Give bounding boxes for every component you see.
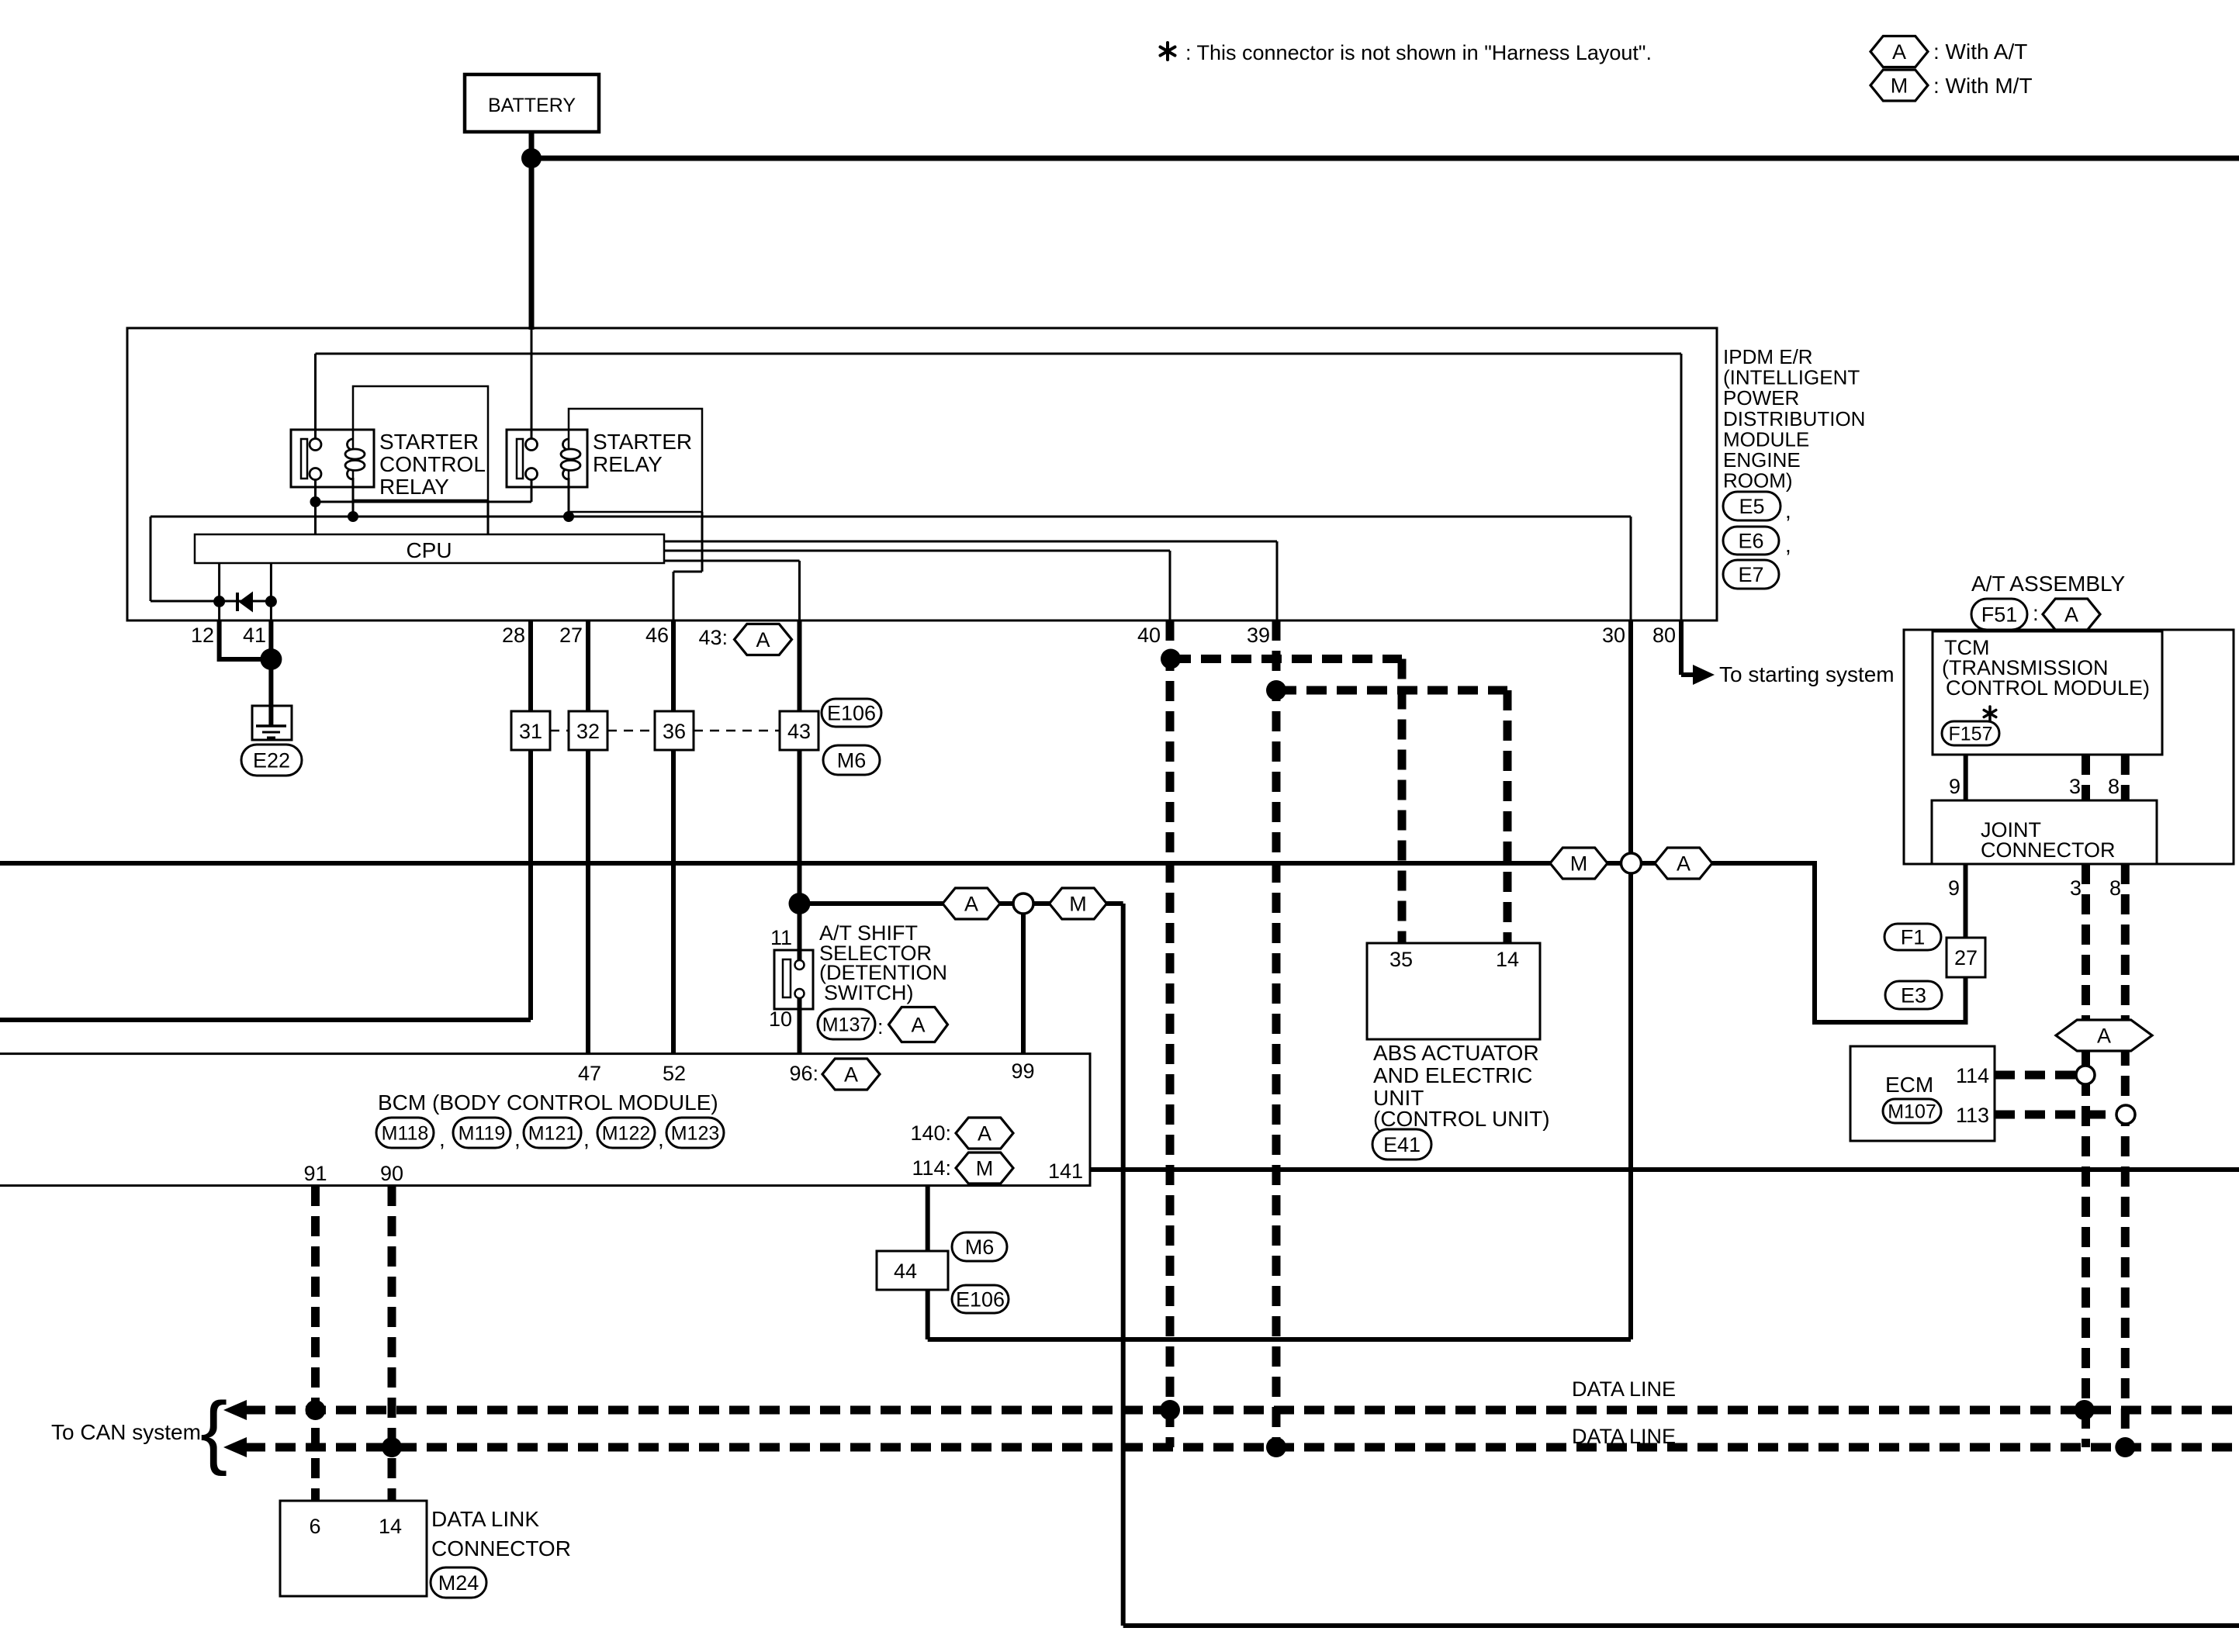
svg-text:IPDM E/R: IPDM E/R <box>1723 345 1813 368</box>
svg-text:28: 28 <box>502 624 525 647</box>
svg-text:DATA LINK: DATA LINK <box>431 1507 539 1531</box>
svg-text:8: 8 <box>2109 876 2121 900</box>
svg-text:E5: E5 <box>1739 495 1764 518</box>
svg-text:43:: 43: <box>698 626 728 649</box>
svg-text:ABS ACTUATOR: ABS ACTUATOR <box>1373 1041 1539 1065</box>
svg-text:A: A <box>2097 1024 2111 1047</box>
svg-text:A: A <box>978 1121 991 1145</box>
svg-text:E41: E41 <box>1383 1133 1421 1156</box>
svg-text:114:: 114: <box>912 1156 951 1180</box>
svg-text:M6: M6 <box>965 1236 995 1259</box>
svg-text:8: 8 <box>2108 775 2120 798</box>
svg-text:{: { <box>200 1385 227 1477</box>
svg-text:A/T ASSEMBLY: A/T ASSEMBLY <box>1971 572 2125 596</box>
svg-text:41: 41 <box>243 624 266 647</box>
svg-text:ECM: ECM <box>1885 1073 1933 1097</box>
svg-text:27: 27 <box>1954 946 1978 969</box>
svg-text:ROOM): ROOM) <box>1723 469 1793 492</box>
svg-text:M118: M118 <box>382 1122 429 1144</box>
svg-text:DATA LINE: DATA LINE <box>1572 1425 1676 1448</box>
svg-text:M6: M6 <box>837 748 867 772</box>
svg-text:E106: E106 <box>956 1287 1005 1311</box>
svg-text:43: 43 <box>787 720 811 743</box>
svg-text:M107: M107 <box>1888 1101 1936 1122</box>
svg-text:31: 31 <box>519 720 542 743</box>
svg-text:141: 141 <box>1048 1160 1083 1183</box>
svg-text:: This connector is not shown: : This connector is not shown in "Harnes… <box>1185 41 1652 64</box>
svg-text:M: M <box>1570 852 1588 875</box>
svg-text:STARTER: STARTER <box>593 430 692 454</box>
svg-text:27: 27 <box>559 624 583 647</box>
svg-text:32: 32 <box>576 720 600 743</box>
svg-text:9: 9 <box>1949 775 1960 798</box>
svg-text:RELAY: RELAY <box>593 452 663 476</box>
svg-text:6: 6 <box>309 1515 320 1538</box>
svg-text:E22: E22 <box>253 748 290 772</box>
svg-text:M137: M137 <box>822 1014 871 1035</box>
svg-text:M122: M122 <box>602 1122 651 1144</box>
svg-text:BATTERY: BATTERY <box>488 95 576 116</box>
svg-text::: : <box>877 1015 884 1039</box>
svg-text:To CAN system: To CAN system <box>51 1420 201 1444</box>
svg-text:44: 44 <box>894 1260 917 1283</box>
svg-text:30: 30 <box>1602 624 1625 647</box>
svg-text:RELAY: RELAY <box>379 475 449 499</box>
svg-text:10: 10 <box>769 1007 792 1031</box>
svg-text:DISTRIBUTION: DISTRIBUTION <box>1723 407 1865 430</box>
svg-text:CONTROL MODULE): CONTROL MODULE) <box>1946 676 2150 700</box>
svg-text:,: , <box>583 1127 590 1151</box>
svg-text:A: A <box>1892 40 1906 64</box>
svg-text:47: 47 <box>578 1062 601 1085</box>
svg-text:ENGINE: ENGINE <box>1723 448 1801 472</box>
svg-text:CONNECTOR: CONNECTOR <box>1981 838 2116 862</box>
svg-text:A: A <box>964 892 978 915</box>
svg-text:(CONTROL UNIT): (CONTROL UNIT) <box>1373 1107 1550 1131</box>
svg-text:M121: M121 <box>528 1122 577 1144</box>
svg-text:MODULE: MODULE <box>1723 427 1809 451</box>
svg-text:39: 39 <box>1247 624 1270 647</box>
svg-text:M24: M24 <box>438 1571 479 1595</box>
svg-text:36: 36 <box>663 720 686 743</box>
svg-text:E106: E106 <box>827 701 876 724</box>
svg-text:113: 113 <box>1956 1104 1989 1127</box>
svg-text:M119: M119 <box>459 1122 506 1144</box>
svg-text:52: 52 <box>663 1062 686 1085</box>
svg-text:F1: F1 <box>1901 925 1926 949</box>
svg-text:(INTELLIGENT: (INTELLIGENT <box>1723 366 1860 389</box>
svg-text:E6: E6 <box>1738 529 1763 552</box>
svg-text:,: , <box>514 1127 521 1151</box>
svg-text:CONNECTOR: CONNECTOR <box>431 1536 571 1560</box>
svg-text:9: 9 <box>1948 876 1960 900</box>
svg-text:: With A/T: : With A/T <box>1933 40 2027 64</box>
svg-text:A: A <box>1677 852 1690 875</box>
svg-text:80: 80 <box>1652 624 1676 647</box>
svg-text:3: 3 <box>2069 775 2081 798</box>
svg-text:90: 90 <box>380 1162 403 1185</box>
svg-text:AND ELECTRIC: AND ELECTRIC <box>1373 1063 1532 1087</box>
svg-text:A: A <box>2064 603 2078 626</box>
svg-text:,: , <box>439 1127 445 1151</box>
svg-text:11: 11 <box>770 926 792 949</box>
svg-text:M: M <box>976 1156 994 1180</box>
svg-text:M: M <box>1069 892 1087 915</box>
svg-text:F157: F157 <box>1949 723 1993 745</box>
svg-text:A: A <box>756 628 770 651</box>
svg-text:114: 114 <box>1956 1064 1989 1087</box>
svg-text::: : <box>2033 601 2039 625</box>
svg-text:,: , <box>658 1127 664 1151</box>
svg-text:40: 40 <box>1137 624 1161 647</box>
svg-text:POWER: POWER <box>1723 386 1799 410</box>
svg-text:96:: 96: <box>789 1062 818 1085</box>
svg-text:: With M/T: : With M/T <box>1933 74 2033 98</box>
svg-text:E3: E3 <box>1901 983 1926 1007</box>
svg-text:CPU: CPU <box>406 538 452 562</box>
svg-text:3: 3 <box>2070 876 2082 900</box>
svg-text:DATA LINE: DATA LINE <box>1572 1377 1676 1401</box>
svg-text:SWITCH): SWITCH) <box>824 981 913 1004</box>
svg-text:F51: F51 <box>1981 603 2018 626</box>
svg-text:E7: E7 <box>1738 563 1763 586</box>
svg-text:A: A <box>844 1063 858 1086</box>
svg-text:140:: 140: <box>910 1121 951 1145</box>
svg-text:A: A <box>911 1013 925 1036</box>
svg-text:M123: M123 <box>671 1122 720 1144</box>
svg-text:91: 91 <box>303 1162 327 1185</box>
svg-text:To starting system: To starting system <box>1719 662 1895 686</box>
svg-text:,: , <box>1785 533 1791 557</box>
svg-text:46: 46 <box>645 624 669 647</box>
svg-text:35: 35 <box>1389 948 1413 971</box>
svg-text:,: , <box>1785 499 1791 523</box>
svg-text:12: 12 <box>191 624 214 647</box>
svg-text:14: 14 <box>379 1515 402 1538</box>
svg-text:STARTER: STARTER <box>379 430 479 454</box>
svg-text:99: 99 <box>1011 1059 1034 1083</box>
svg-text:CONTROL: CONTROL <box>379 452 486 476</box>
svg-text:BCM (BODY CONTROL MODULE): BCM (BODY CONTROL MODULE) <box>378 1090 718 1115</box>
svg-text:14: 14 <box>1496 948 1519 971</box>
svg-text:M: M <box>1891 74 1909 97</box>
